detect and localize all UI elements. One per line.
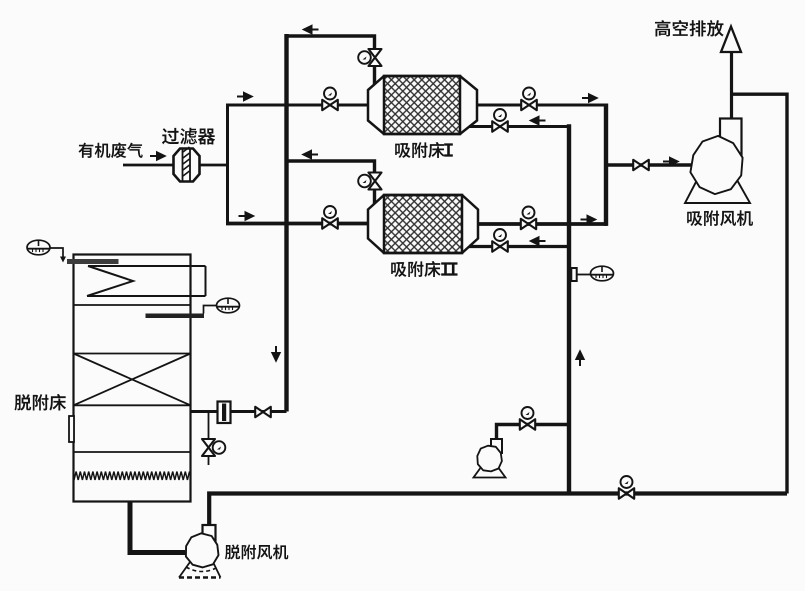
wire desorb top bed I bbox=[287, 36, 375, 49]
adsorption fan legs bbox=[685, 180, 750, 203]
instrument tap on header bbox=[571, 268, 576, 281]
valve V5 bed I outlet bbox=[521, 100, 537, 110]
adsorption bed II vessel bbox=[368, 195, 478, 253]
gauge column right bbox=[217, 298, 240, 313]
wire desorb top bed II bbox=[287, 161, 375, 173]
desorb column shell bbox=[74, 255, 191, 502]
valve V11 drain bbox=[202, 439, 215, 456]
valve V12 recirculation bbox=[619, 488, 634, 499]
column manway tab bbox=[69, 416, 74, 442]
flow arrow bus down bbox=[272, 346, 279, 361]
flow arrow desorb header up bbox=[576, 352, 583, 367]
wire branch2 to bed II bbox=[226, 222, 368, 226]
valve V7 bed II outlet bbox=[521, 219, 536, 229]
wire bed II desorb return bbox=[469, 245, 569, 248]
wire branch1 to bed I bbox=[226, 104, 368, 107]
flow arrow bed II outlet bbox=[581, 216, 596, 223]
flow arrow branch1 bbox=[237, 93, 252, 100]
wire filter to manifold bbox=[199, 164, 229, 167]
desorb fan neck bbox=[203, 525, 216, 543]
desorb fan casing bbox=[186, 533, 219, 567]
valve V9 fan suction bbox=[633, 160, 649, 170]
flow arrow bed II desorb return bbox=[531, 237, 546, 244]
flow arrow bed I desorb return bbox=[531, 117, 546, 124]
wire column bottom outlet bbox=[130, 502, 185, 553]
valve V1 bed I inlet bbox=[322, 100, 338, 110]
label stack label bbox=[655, 20, 724, 37]
drain branch bbox=[208, 412, 210, 441]
column demister zigzag bbox=[74, 472, 190, 481]
label adsorption fan label bbox=[687, 210, 753, 226]
wire desorb fan discharge bbox=[209, 494, 787, 526]
wire desorb bus bbox=[284, 34, 288, 412]
top gauge connector bbox=[50, 248, 63, 257]
wire fan suction bbox=[606, 163, 691, 167]
valve V2 bed II inlet bbox=[322, 218, 338, 229]
bed I numeral bbox=[444, 145, 453, 156]
column divider 4 bbox=[74, 451, 191, 453]
flow arrow top bed I bbox=[304, 26, 319, 33]
flow arrow top bed II bbox=[304, 151, 319, 158]
valve V10 column line bbox=[255, 407, 271, 417]
label filter label bbox=[162, 128, 215, 145]
wire stack to right drop bbox=[732, 94, 788, 493]
label desorb bed label bbox=[14, 394, 66, 411]
label bed I label bbox=[395, 142, 444, 158]
wire bed I outlet bbox=[477, 104, 607, 107]
valve V3 bed I desorb bbox=[369, 49, 382, 66]
makeup pump casing bbox=[477, 446, 502, 472]
flow arrow bed I outlet bbox=[582, 94, 597, 101]
heater coil bbox=[87, 266, 206, 296]
makeup pump neck bbox=[491, 439, 502, 453]
desorb fan legs bbox=[179, 562, 221, 578]
node manifold vertical bbox=[226, 104, 229, 225]
label bed II label bbox=[391, 261, 440, 277]
valve V4 bed II desorb bbox=[369, 173, 382, 190]
column divider 3 bbox=[74, 404, 191, 406]
mid sparger bar bbox=[146, 314, 205, 319]
label organic waste gas bbox=[78, 143, 142, 158]
makeup pump legs bbox=[474, 463, 506, 478]
adsorption fan casing bbox=[690, 136, 742, 194]
valve V13 makeup bbox=[520, 419, 535, 430]
bed II numeral bbox=[441, 264, 450, 275]
label desorb fan label bbox=[225, 544, 288, 559]
stack discharge triangle bbox=[721, 27, 741, 53]
valve V6 bed I desorb return bbox=[492, 121, 508, 132]
flow arrow branch2 bbox=[239, 212, 254, 219]
wire inlet left bbox=[123, 164, 174, 167]
column divider 1 bbox=[74, 304, 191, 306]
wire bed II outlet bbox=[478, 222, 607, 226]
gauge top left bbox=[27, 240, 50, 255]
column divider 2 bbox=[74, 353, 191, 355]
wire desorb header bbox=[567, 124, 571, 493]
filter F1 bbox=[174, 149, 200, 182]
mid gauge connector bbox=[204, 306, 217, 314]
top sparger bar bbox=[67, 259, 119, 264]
wire stack riser bbox=[730, 52, 733, 119]
adsorption fan outlet box bbox=[720, 119, 742, 159]
wire makeup pump to header bbox=[497, 425, 570, 441]
gauge on header bbox=[591, 266, 614, 281]
adsorption bed I vessel bbox=[368, 76, 477, 134]
column packing X bbox=[74, 354, 191, 406]
valve V8 bed II desorb return bbox=[492, 241, 508, 252]
flow arrow inlet bbox=[150, 152, 165, 159]
wire bed I desorb return bbox=[469, 125, 570, 128]
flow arrow fan suction bbox=[663, 158, 678, 165]
wire column to bus bbox=[191, 410, 287, 413]
flame arrestor FA1 bbox=[218, 402, 231, 424]
wire clean gas header bbox=[604, 104, 608, 226]
